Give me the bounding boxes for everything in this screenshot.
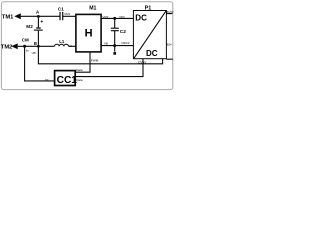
svg-text:M2: M2 [26,24,33,29]
svg-text:H: H [85,28,93,40]
svg-text:CM: CM [22,38,29,43]
svg-text:VM1: VM1 [64,12,70,16]
svg-text:CV5V: CV5V [138,60,147,64]
svg-text:Im: Im [45,77,49,81]
svg-text:P1: P1 [145,6,152,12]
svg-text:Data: Data [76,68,83,72]
svg-text:VM2: VM2 [103,15,109,19]
svg-text:A: A [36,10,40,15]
svg-text:C1: C1 [58,6,64,11]
svg-text:BU5V: BU5V [166,10,173,14]
svg-text:C2: C2 [120,29,126,35]
svg-text:VDC: VDC [119,15,125,19]
svg-text:Im: Im [26,49,30,53]
svg-text:MDC2: MDC2 [122,41,130,45]
svg-text:Data: Data [76,78,83,82]
svg-text:UB: UB [32,51,36,55]
svg-text:CC1: CC1 [57,75,78,86]
svg-text:TM1: TM1 [2,14,14,20]
svg-text:VB: VB [104,41,108,45]
svg-text:TM2: TM2 [1,44,13,50]
svg-text:PWM: PWM [91,58,99,62]
svg-text:M1: M1 [89,6,96,12]
svg-text:L1: L1 [59,39,65,44]
svg-text:DC: DC [146,49,158,58]
svg-text:B: B [34,41,37,46]
svg-text:DC: DC [135,14,147,23]
svg-text:B24: B24 [167,43,172,47]
